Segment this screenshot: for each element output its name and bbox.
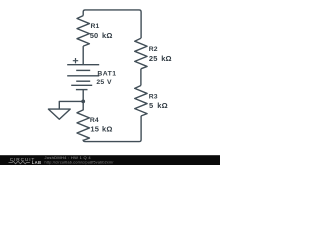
svg-text:kΩ: kΩ — [102, 31, 113, 40]
svg-text:25: 25 — [96, 79, 104, 86]
svg-text:5: 5 — [149, 101, 153, 110]
svg-text:R4: R4 — [90, 117, 99, 124]
svg-text:LAB: LAB — [32, 160, 42, 165]
wire node to ground — [59, 101, 83, 109]
battery BAT1 plus sign — [73, 58, 78, 63]
svg-text:http://circuitlab.com/c/pu8f5v: http://circuitlab.com/c/pu8f5vabb2xm/ — [45, 160, 115, 164]
resistor R4 — [77, 101, 89, 140]
wire battery bottom to node — [82, 90, 84, 102]
wire top (node between R1 top and R2 top) — [83, 10, 141, 38]
svg-text:JoshDMH4 : HW 1 Q 4: JoshDMH4 : HW 1 Q 4 — [45, 155, 92, 160]
resistor R3 — [135, 86, 147, 117]
svg-text:R3: R3 — [149, 93, 158, 100]
footer bar — [0, 155, 220, 165]
resistor R1 — [77, 16, 89, 46]
CircuitLab logo: resistor squiggle — [9, 161, 30, 164]
svg-text:50: 50 — [90, 31, 99, 40]
svg-text:BAT1: BAT1 — [97, 71, 116, 78]
svg-text:25: 25 — [149, 54, 158, 63]
wire bottom (node between R4 bottom and R3 bottom) — [83, 116, 141, 142]
wire R1 bottom to battery top — [82, 46, 84, 65]
resistor R2 — [135, 38, 147, 68]
svg-text:R2: R2 — [149, 46, 158, 53]
node A junction dot — [81, 100, 85, 104]
svg-text:kΩ: kΩ — [102, 124, 113, 133]
battery BAT1 plates — [67, 64, 99, 66]
wire R2 bottom to R3 top — [140, 69, 142, 86]
svg-text:R1: R1 — [91, 23, 100, 30]
svg-text:V: V — [107, 79, 112, 86]
svg-text:kΩ: kΩ — [157, 101, 168, 110]
svg-text:15: 15 — [90, 124, 99, 133]
ground — [48, 109, 70, 119]
svg-text:kΩ: kΩ — [161, 54, 172, 63]
